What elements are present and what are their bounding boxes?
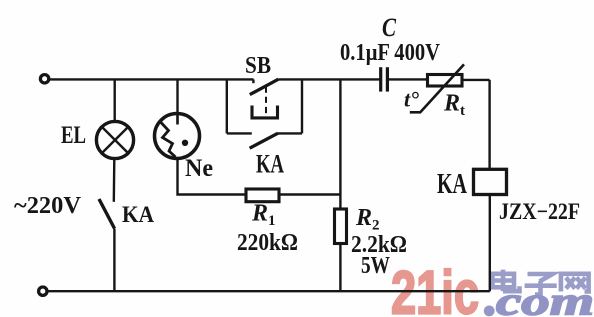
watermark dot of .com bbox=[484, 306, 495, 317]
svg-text:KA: KA bbox=[122, 202, 154, 227]
wire coil to bottom rail bbox=[489, 195, 491, 292]
wire R2 to bottom rail bbox=[339, 244, 341, 292]
svg-text:com: com bbox=[496, 279, 594, 317]
svg-text:C: C bbox=[382, 13, 397, 42]
terminal bottom-left bbox=[39, 287, 47, 295]
wire Ne to R1 bbox=[178, 159, 247, 195]
thermistor Rt bbox=[410, 64, 464, 112]
lamp EL bbox=[96, 121, 133, 158]
wire Rt to corner bbox=[462, 79, 490, 81]
resistor R2 bbox=[335, 209, 347, 244]
wire R2 branch top bbox=[339, 79, 341, 209]
wire Ne branch top bbox=[176, 79, 178, 113]
wire EL branch top bbox=[113, 79, 115, 121]
svg-text:21ic: 21ic bbox=[391, 259, 479, 317]
capacitor C bbox=[381, 67, 388, 91]
svg-text:Ne: Ne bbox=[185, 155, 213, 182]
svg-text:JZX−22F: JZX−22F bbox=[499, 199, 580, 224]
terminal top-left bbox=[40, 75, 48, 83]
svg-text:SB: SB bbox=[245, 53, 271, 79]
wire R1 to R2 node bbox=[279, 193, 340, 195]
relay coil KA bbox=[474, 169, 507, 194]
wire KA contact left bbox=[227, 132, 252, 134]
wire right vertical down to coil bbox=[488, 80, 490, 169]
svg-text:KA: KA bbox=[437, 169, 468, 200]
watermark char dian bbox=[493, 270, 520, 292]
relay contact KA blade bbox=[250, 133, 278, 148]
svg-text:t°: t° bbox=[404, 87, 419, 112]
watermark char zi bbox=[525, 274, 557, 295]
neon lamp Ne bbox=[155, 113, 200, 159]
watermark char wang bbox=[561, 274, 589, 292]
svg-text:EL: EL bbox=[61, 122, 86, 149]
svg-text:KA: KA bbox=[256, 150, 284, 179]
wire top rail middle bbox=[278, 78, 379, 80]
wire SB left branch bbox=[226, 79, 228, 133]
wire top rail left bbox=[49, 78, 254, 80]
svg-text:~220V: ~220V bbox=[14, 193, 82, 219]
pushbutton SB bbox=[250, 79, 279, 118]
wire top rail right bbox=[389, 78, 428, 80]
resistor R1 bbox=[246, 189, 279, 202]
wire bottom rail bbox=[47, 290, 490, 292]
wire EL to switch bbox=[113, 159, 116, 202]
svg-text:220kΩ: 220kΩ bbox=[237, 230, 298, 256]
wire KA contact right bbox=[278, 132, 302, 134]
svg-text:0.1μF 400V: 0.1μF 400V bbox=[340, 40, 441, 66]
switch KA mains blade bbox=[99, 199, 115, 229]
wire SB right branch bbox=[301, 79, 303, 133]
svg-text:5W: 5W bbox=[361, 253, 390, 279]
wire switch to bottom rail bbox=[113, 229, 115, 292]
